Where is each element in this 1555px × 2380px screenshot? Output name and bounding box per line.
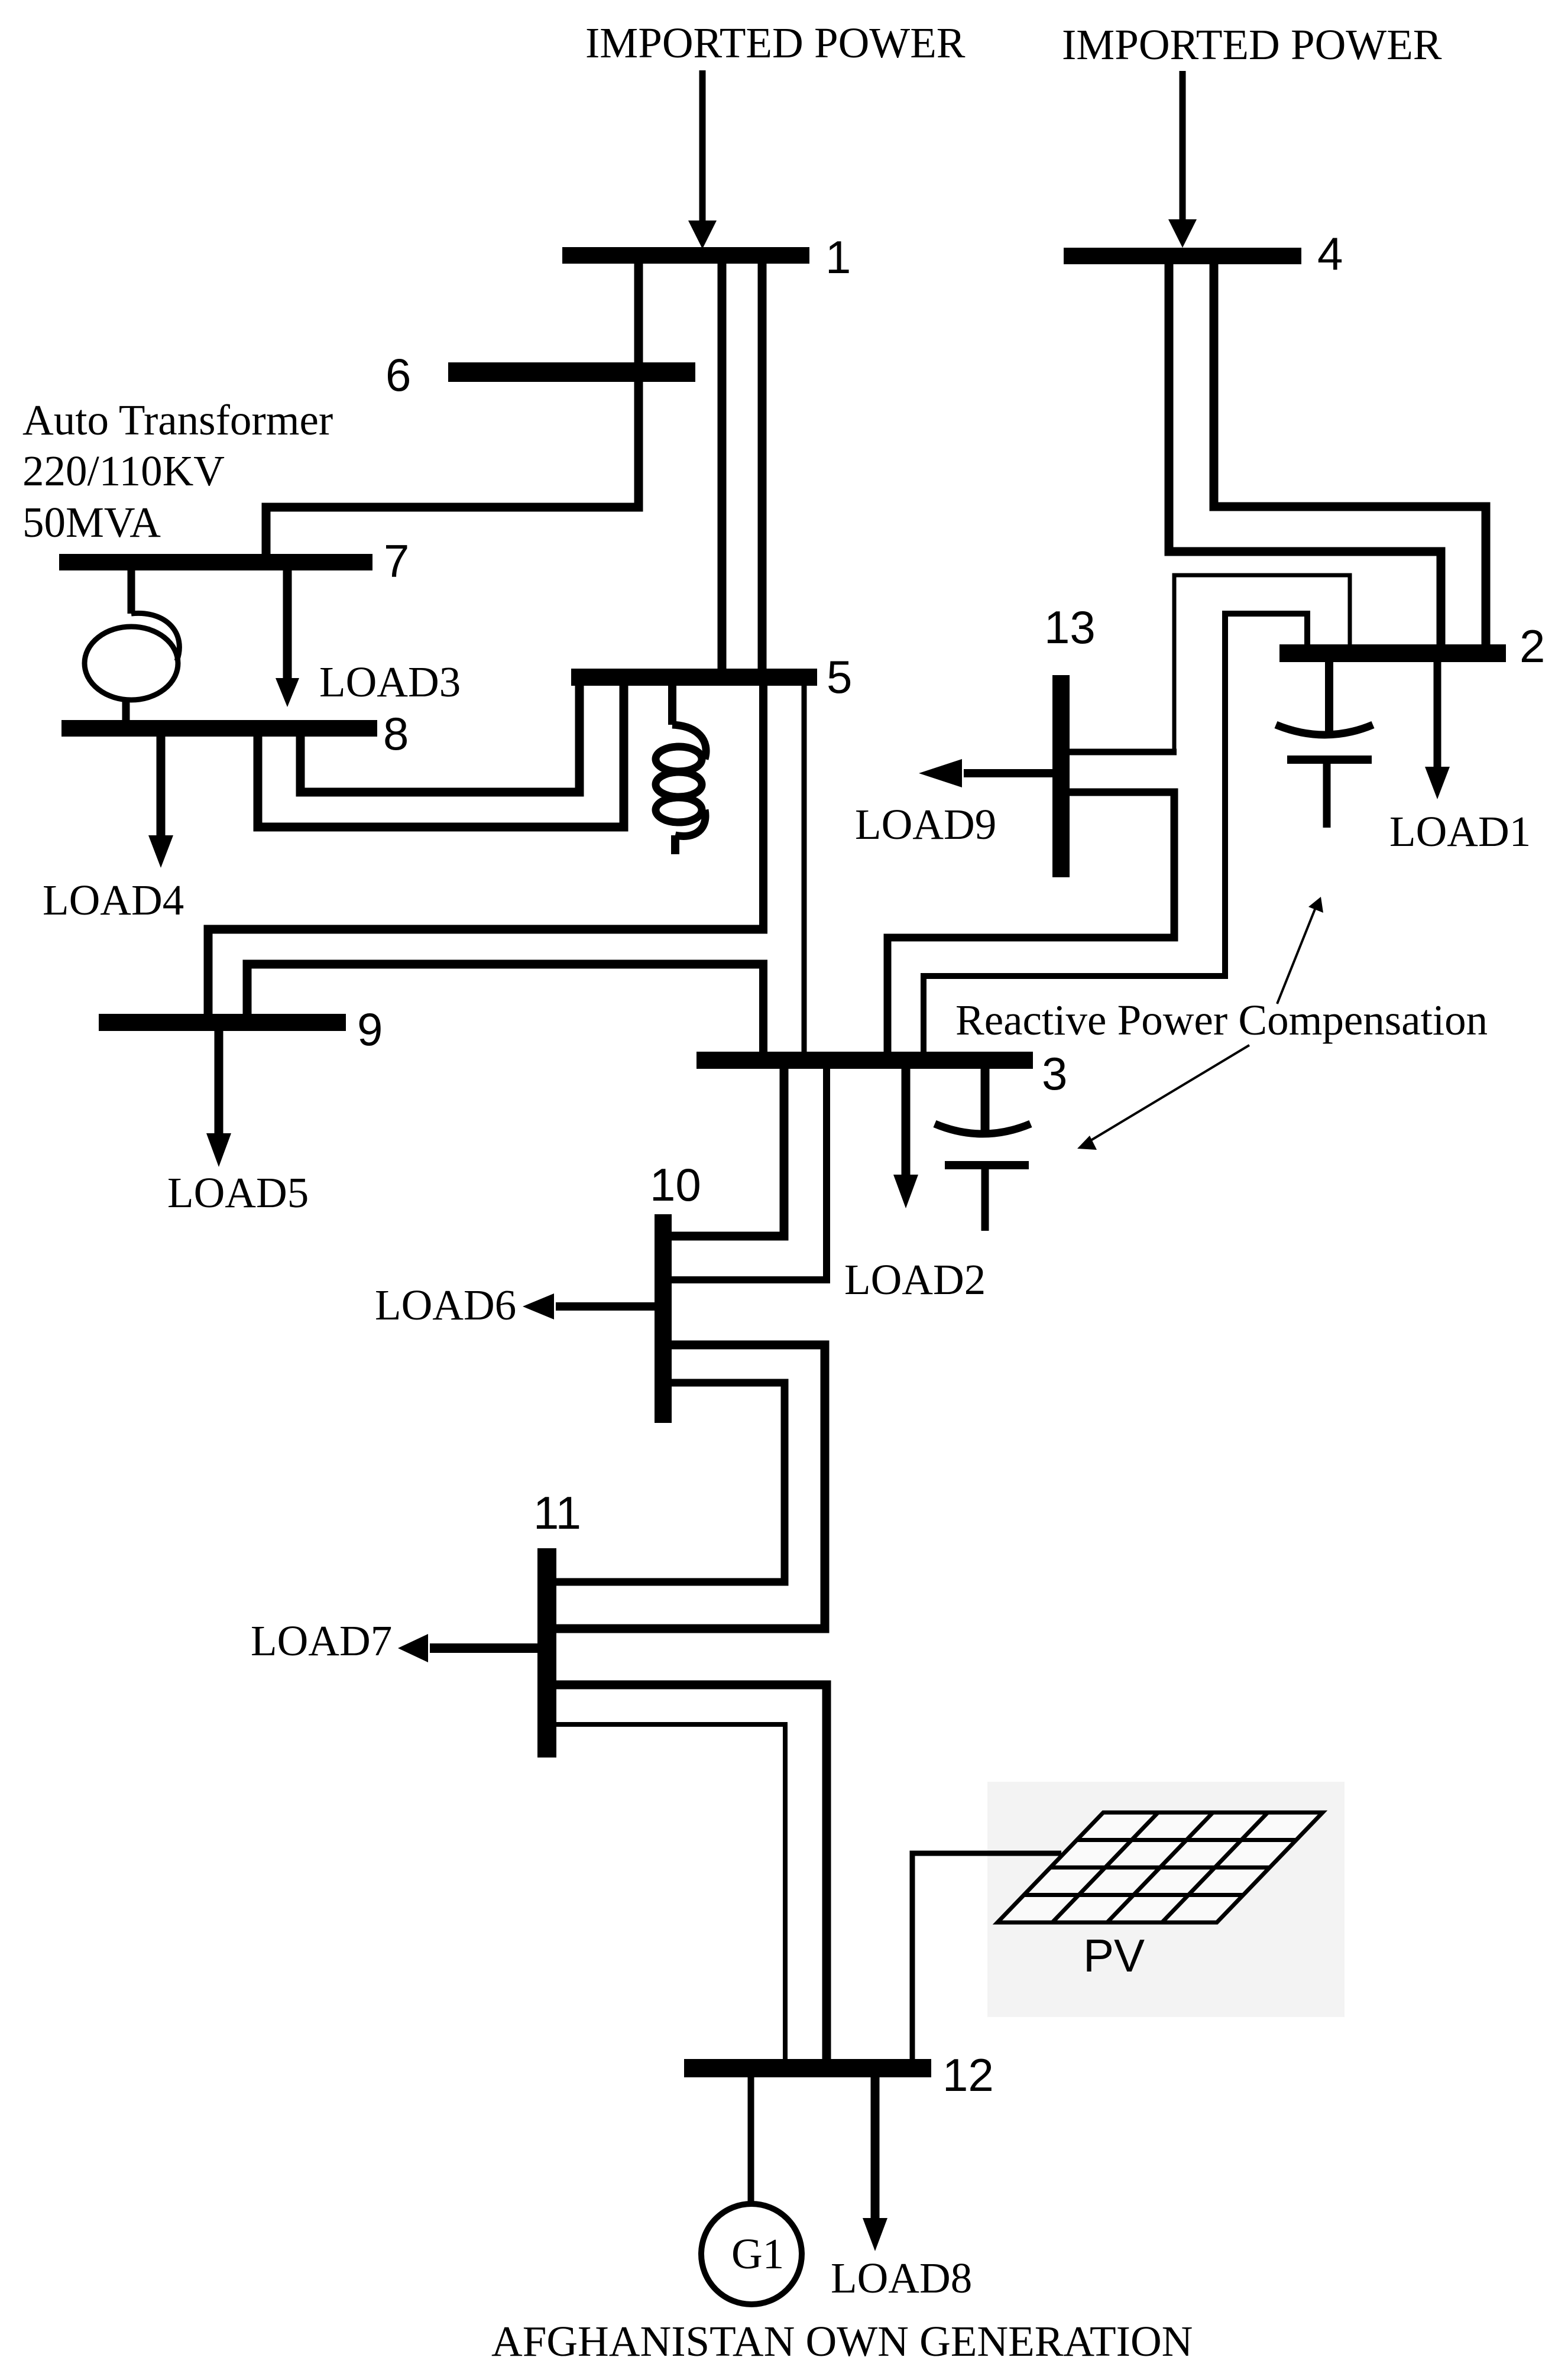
svg-text:220/110KV: 220/110KV bbox=[22, 447, 225, 495]
load arrow LOAD7 bbox=[398, 1634, 539, 1662]
wire bus1-bus5 line b bbox=[758, 260, 767, 674]
svg-text:LOAD7: LOAD7 bbox=[251, 1617, 392, 1665]
svg-text:LOAD5: LOAD5 bbox=[167, 1169, 309, 1217]
svg-text:5: 5 bbox=[827, 651, 852, 703]
generator G1 bbox=[701, 2076, 802, 2304]
svg-text:6: 6 bbox=[385, 349, 411, 401]
load arrow LOAD5 bbox=[206, 1030, 231, 1167]
load arrow LOAD4 bbox=[148, 735, 173, 868]
wire bus8 to bus5 (lower) bbox=[258, 685, 624, 827]
bus 9 bbox=[99, 1014, 346, 1031]
wire bus10 to bus11 (outer) bbox=[556, 1345, 825, 1629]
bus 3 bbox=[696, 1052, 1033, 1069]
capacitor C3 (at bus 3) bbox=[935, 1068, 1031, 1231]
svg-text:PV: PV bbox=[1083, 1930, 1145, 1982]
svg-text:11: 11 bbox=[533, 1487, 581, 1539]
svg-text:10: 10 bbox=[650, 1159, 701, 1211]
svg-text:Auto Transformer: Auto Transformer bbox=[22, 396, 333, 444]
PV panel bbox=[997, 1812, 1323, 1922]
bus 11 bbox=[537, 1548, 556, 1758]
PV backdrop bbox=[987, 1782, 1345, 2017]
svg-text:G1: G1 bbox=[731, 2230, 784, 2278]
load arrow LOAD8 bbox=[863, 2076, 887, 2251]
wire bus2 to bus3 bbox=[924, 614, 1307, 1053]
svg-text:12: 12 bbox=[942, 2049, 994, 2101]
bus 7 bbox=[59, 554, 372, 570]
wire bus11 to bus12 (thin) bbox=[556, 1724, 785, 2061]
load arrow LOAD1 bbox=[1425, 660, 1450, 799]
svg-text:13: 13 bbox=[1044, 601, 1096, 653]
wire bus1 to bus7 via bus6 bbox=[266, 260, 639, 556]
bus 2 bbox=[1279, 644, 1506, 662]
bus 5 bbox=[571, 669, 817, 686]
inductor L1 (shunt reactor at bus 5) bbox=[656, 685, 706, 854]
wire bus4 to bus2 (left drop) bbox=[1169, 262, 1441, 647]
load arrow LOAD3 bbox=[276, 569, 299, 707]
svg-text:LOAD3: LOAD3 bbox=[319, 658, 461, 706]
wire bus5 to bus3 (thin) bbox=[802, 685, 807, 1053]
wire bus9 to node on bus5-bus3 line (upper) bbox=[208, 929, 767, 1015]
bus 13 bbox=[1052, 675, 1070, 877]
load arrow LOAD6 bbox=[523, 1293, 656, 1319]
svg-text:IMPORTED POWER: IMPORTED POWER bbox=[1062, 21, 1442, 69]
load arrow LOAD2 bbox=[893, 1068, 918, 1208]
wire bus13 to bus2 (thin) bbox=[1068, 749, 1177, 755]
load arrow LOAD9 bbox=[919, 759, 1054, 787]
arrow imported power into bus 4 bbox=[1168, 71, 1197, 248]
transformer T1 (auto transformer) bbox=[85, 569, 179, 722]
svg-text:8: 8 bbox=[383, 708, 409, 760]
svg-text:2: 2 bbox=[1520, 620, 1545, 672]
bus 12 bbox=[684, 2059, 931, 2077]
bus 1 bbox=[562, 247, 809, 264]
svg-text:LOAD1: LOAD1 bbox=[1389, 808, 1531, 855]
svg-text:LOAD4: LOAD4 bbox=[43, 876, 184, 924]
svg-text:IMPORTED POWER: IMPORTED POWER bbox=[585, 19, 966, 67]
svg-text:LOAD8: LOAD8 bbox=[831, 2254, 972, 2302]
wire bus12 to PV bbox=[912, 1853, 1061, 2061]
svg-text:AFGHANISTAN OWN GENERATION: AFGHANISTAN OWN GENERATION bbox=[491, 2317, 1193, 2365]
pointer arrow to capacitor C2 bbox=[1277, 897, 1323, 1004]
arrow imported power into bus 1 bbox=[688, 70, 717, 249]
wire bus10 to bus11 (inner) bbox=[556, 1383, 785, 1582]
svg-text:Reactive Power Compensation: Reactive Power Compensation bbox=[955, 996, 1488, 1044]
svg-text:50MVA: 50MVA bbox=[22, 498, 161, 546]
bus 6 bbox=[448, 362, 695, 382]
wire bus11 to bus12 (thick) bbox=[556, 1685, 827, 2061]
bus 8 bbox=[61, 720, 377, 737]
bus 4 bbox=[1064, 248, 1301, 264]
svg-text:9: 9 bbox=[357, 1003, 383, 1055]
wire bus9 to node on bus5-bus3 line (lower) bbox=[247, 964, 767, 1015]
svg-text:3: 3 bbox=[1042, 1048, 1067, 1100]
wire bus13 to bus3 bbox=[887, 792, 1174, 1053]
wire bus5 to bus3 (thick) bbox=[759, 685, 767, 933]
svg-text:7: 7 bbox=[384, 535, 409, 587]
bus 10 bbox=[655, 1214, 672, 1423]
wire bus1-bus5 line a bbox=[718, 260, 727, 674]
wire bus3 to bus10 (upper) bbox=[672, 1068, 784, 1236]
wire bus4 to bus2 (right drop) bbox=[1214, 262, 1486, 647]
pointer arrow to capacitor C3 bbox=[1077, 1045, 1249, 1150]
wire bus3 to bus10 (lower) bbox=[672, 1068, 827, 1280]
capacitor C2 (at bus 2) bbox=[1276, 660, 1373, 828]
svg-text:1: 1 bbox=[825, 231, 851, 283]
svg-text:LOAD6: LOAD6 bbox=[375, 1281, 516, 1329]
svg-text:LOAD2: LOAD2 bbox=[844, 1256, 986, 1304]
wire bus8 to bus5 (upper) bbox=[300, 685, 579, 792]
svg-text:LOAD9: LOAD9 bbox=[855, 800, 996, 848]
svg-text:4: 4 bbox=[1317, 228, 1343, 280]
